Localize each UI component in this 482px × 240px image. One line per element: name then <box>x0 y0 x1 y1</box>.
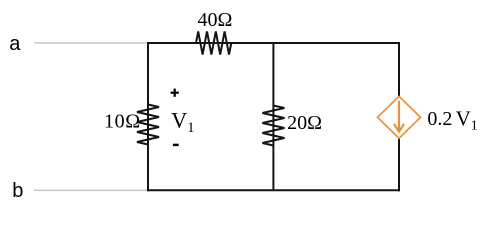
svg-text:b: b <box>12 180 23 202</box>
wire right branch lower <box>398 138 400 191</box>
svg-text:20Ω: 20Ω <box>287 112 322 134</box>
wire middle branch <box>272 43 274 190</box>
voltage V1 minus sign <box>173 144 179 146</box>
svg-text:V1: V1 <box>456 106 478 133</box>
resistor 10ohm (vertical zigzag) <box>137 105 159 145</box>
resistor 20ohm (vertical zigzag) <box>262 106 284 146</box>
dependent current source U1 diamond <box>378 96 421 138</box>
voltage V1 plus sign <box>171 89 179 97</box>
svg-text:V1: V1 <box>171 108 194 136</box>
wire terminal a lead (grey) <box>34 42 148 44</box>
wire top rail <box>147 42 399 44</box>
dependent current source arrow shaft <box>398 101 400 131</box>
svg-text:a: a <box>9 33 21 55</box>
wire terminal b lead (grey) <box>34 189 148 191</box>
svg-text:0.2: 0.2 <box>427 108 452 130</box>
dependent current source arrow head <box>394 124 404 132</box>
wire right branch upper <box>398 42 400 97</box>
resistor 40ohm (horizontal zigzag) <box>196 31 231 54</box>
wire left branch <box>147 42 149 191</box>
wire bottom rail <box>147 189 400 191</box>
svg-text:10Ω: 10Ω <box>104 111 141 133</box>
svg-text:40Ω: 40Ω <box>198 9 233 31</box>
